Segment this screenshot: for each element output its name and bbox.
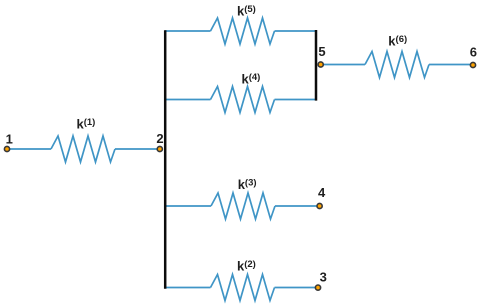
spring k5 — [211, 18, 275, 44]
wire left bus to spring k4 — [165, 99, 211, 101]
left bus wire — [164, 30, 167, 289]
svg-text:1: 1 — [6, 132, 13, 147]
svg-text:4: 4 — [318, 185, 326, 200]
spring k1 — [51, 136, 115, 162]
wire spring k1 to node 2 — [115, 148, 160, 150]
spring k3 — [211, 193, 275, 219]
wire node5 to spring k6 — [321, 64, 365, 66]
node 4 — [317, 185, 326, 209]
svg-text:k(4): k(4) — [242, 71, 261, 86]
svg-text:k(1): k(1) — [77, 117, 96, 132]
svg-text:2: 2 — [156, 131, 163, 146]
wire left bus to spring k3 — [165, 205, 211, 207]
node 5 — [318, 44, 326, 67]
wire left bus to spring k2 — [165, 287, 211, 289]
wire spring k5 to right bus — [275, 30, 317, 32]
svg-text:5: 5 — [318, 44, 325, 59]
svg-text:3: 3 — [320, 270, 327, 285]
svg-text:k(5): k(5) — [237, 4, 256, 19]
node 6 — [470, 45, 477, 68]
wire spring k3 to node 4 — [275, 205, 317, 207]
spring k6 — [365, 52, 429, 78]
svg-text:k(6): k(6) — [388, 34, 407, 49]
wire spring k6 to node 6 — [429, 64, 470, 66]
svg-text:k(3): k(3) — [238, 177, 257, 192]
node 1 — [4, 132, 12, 152]
node 2 — [156, 131, 163, 152]
wire spring k4 to right bus — [275, 99, 317, 101]
wire left bus to spring k5 — [165, 30, 211, 32]
node 3 — [315, 270, 326, 291]
spring k2 — [211, 275, 275, 301]
wire spring k2 to node 3 — [275, 287, 316, 289]
right bus wire — [315, 30, 318, 101]
svg-text:k(2): k(2) — [237, 259, 256, 274]
wire node1 to spring k1 — [9, 148, 51, 150]
spring k4 — [211, 87, 275, 113]
svg-text:6: 6 — [470, 45, 477, 60]
